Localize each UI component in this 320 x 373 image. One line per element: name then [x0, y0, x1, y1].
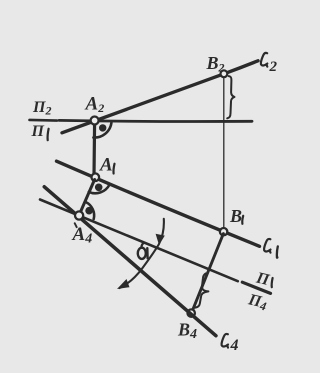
svg-text:A: A	[99, 155, 113, 176]
svg-text:B2: B2	[206, 53, 225, 75]
brace (height of B2)	[227, 76, 234, 118]
right angle arc at A4	[86, 202, 94, 219]
right angle arc at A1	[89, 185, 110, 193]
projection line A2-A1	[92, 122, 96, 176]
right angle arc at A2	[93, 123, 111, 138]
accent tick above A4 label	[75, 223, 77, 227]
axis Pi2/Pi1 ground line	[59, 120, 252, 121]
dot in angle at A1	[95, 184, 103, 192]
svg-text:A2: A2	[85, 94, 105, 116]
label l1 (script ell)	[264, 239, 270, 253]
label l4 (script ell)	[222, 334, 228, 348]
line l2	[62, 61, 258, 133]
svg-text:4: 4	[230, 337, 239, 354]
node A4	[75, 211, 83, 219]
node A2	[91, 117, 99, 125]
svg-text:B: B	[229, 206, 242, 226]
dot in angle at A4	[85, 207, 93, 215]
Pi2/Pi1 fraction bar	[30, 119, 58, 122]
projection line A1-A4	[80, 180, 95, 214]
line l4	[44, 187, 216, 336]
thin projection line B2-B1	[223, 77, 225, 230]
node B1	[220, 228, 227, 235]
angle alpha arc annotation	[120, 219, 164, 288]
brace (distance to B4)	[195, 273, 208, 307]
label alpha (hand-drawn)	[138, 248, 146, 259]
node A1	[92, 173, 100, 181]
arrowhead on alpha arc at axis	[156, 234, 165, 245]
svg-text:B4: B4	[177, 320, 197, 343]
node B2	[221, 70, 228, 77]
svg-text:2: 2	[269, 59, 278, 75]
Pi1/Pi4 fraction bar	[242, 282, 270, 293]
svg-text:П4: П4	[246, 291, 269, 313]
axis Pi1/Pi4	[40, 200, 238, 282]
svg-text:П2: П2	[32, 99, 51, 118]
svg-text:П: П	[254, 269, 271, 289]
dot in angle at A2	[99, 124, 106, 131]
line l1	[57, 161, 260, 246]
node B4	[188, 309, 195, 316]
label l2 (script ell)	[261, 53, 267, 67]
projection line B1-B4	[192, 234, 224, 313]
svg-text:П: П	[31, 123, 45, 140]
arrowhead on alpha arc at l4	[117, 279, 130, 289]
